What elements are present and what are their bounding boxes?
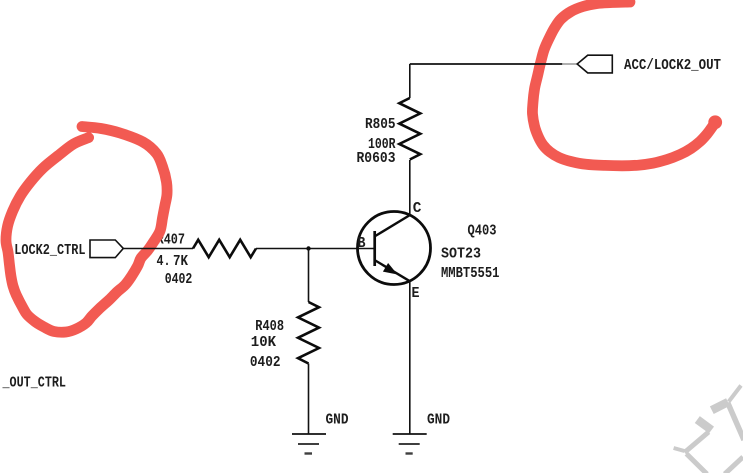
- ground GND1: [292, 413, 349, 454]
- svg-text:R408: R408: [255, 319, 284, 335]
- wire R407 to base: [256, 248, 374, 250]
- svg-text:Q403: Q403: [468, 224, 497, 240]
- wire R805 to top rail: [409, 64, 411, 98]
- transistor Q1 Q403 NPN: [358, 212, 431, 285]
- node junction base: [306, 246, 310, 250]
- svg-text:R0603: R0603: [357, 151, 396, 167]
- annotation red circle around LOCK2_CTRL: [6, 127, 167, 333]
- wire emitter to ground: [409, 281, 411, 434]
- svg-text:4.: 4.: [157, 254, 171, 270]
- svg-text:0402: 0402: [165, 272, 193, 288]
- svg-text:MMBT5551: MMBT5551: [441, 266, 500, 282]
- ground GND2: [393, 413, 451, 454]
- svg-text:SOT23: SOT23: [441, 247, 481, 263]
- svg-text:0402: 0402: [250, 355, 281, 371]
- svg-text:ACC/LOCK2_OUT: ACC/LOCK2_OUT: [624, 58, 721, 74]
- svg-text:B: B: [358, 236, 366, 252]
- svg-text:_OUT_CTRL: _OUT_CTRL: [2, 376, 66, 392]
- annotation red arc near ACC/LOCK2_OUT: [532, 2, 722, 166]
- wire junction to R408: [308, 249, 310, 303]
- port ACC/LOCK2_OUT: [577, 55, 721, 74]
- wire collector to R805: [409, 160, 411, 215]
- svg-text:GND: GND: [326, 413, 349, 429]
- wire port to R407: [123, 248, 193, 250]
- svg-text:LOCK2_CTRL: LOCK2_CTRL: [14, 243, 85, 259]
- svg-text:R805: R805: [365, 117, 396, 133]
- watermark fragment bottom right: [674, 386, 743, 473]
- resistor R1 R407: [193, 240, 256, 257]
- resistor R3 R805: [399, 98, 420, 160]
- svg-text:7K: 7K: [173, 254, 188, 270]
- svg-text:GND: GND: [427, 413, 450, 429]
- R407 value label 4.7K: [157, 254, 189, 270]
- svg-text:E: E: [412, 286, 420, 302]
- wire top rail to output port: [410, 63, 577, 65]
- svg-text:10K: 10K: [251, 335, 276, 351]
- port LOCK2_CTRL: [14, 240, 123, 259]
- svg-text:C: C: [413, 201, 422, 217]
- wire R408 to ground: [308, 364, 310, 435]
- resistor R2 R408: [298, 302, 319, 364]
